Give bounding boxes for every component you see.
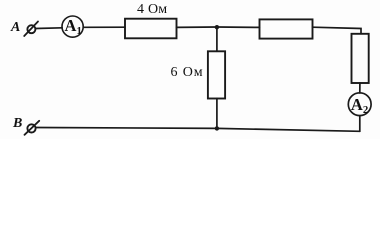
svg-text:4 Ом: 4 Ом <box>137 2 168 17</box>
resistor R4 <box>352 34 369 83</box>
svg-text:B: B <box>12 116 22 131</box>
wire <box>177 26 260 28</box>
wire <box>216 99 218 129</box>
svg-text:A: A <box>10 20 20 35</box>
ammeter A1 <box>62 16 83 37</box>
resistor R2 <box>208 51 225 98</box>
wire <box>359 116 361 132</box>
wire <box>313 27 362 34</box>
wire <box>359 83 361 93</box>
svg-text:6 Ом: 6 Ом <box>171 65 204 80</box>
terminal A <box>24 22 38 37</box>
resistor R1 <box>125 19 177 39</box>
wire <box>36 27 63 30</box>
wire <box>216 27 218 51</box>
terminal B <box>25 121 40 135</box>
wire <box>83 26 125 28</box>
svg-text:A2: A2 <box>351 95 368 116</box>
node junction top <box>215 25 219 29</box>
wire bottom bus <box>36 128 360 132</box>
node junction bottom <box>215 126 219 130</box>
resistor R3 <box>260 19 313 38</box>
ammeter A2 <box>348 93 371 116</box>
